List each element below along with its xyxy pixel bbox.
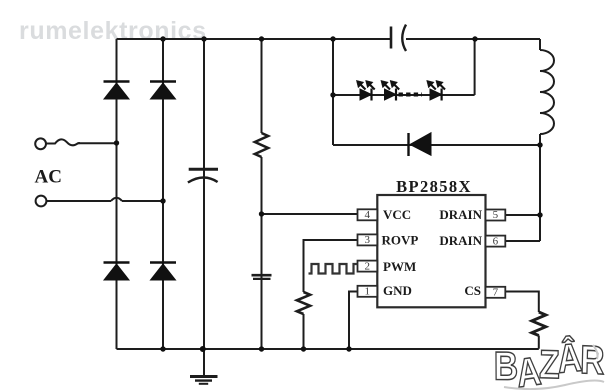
svg-text:ROVP: ROVP (382, 233, 419, 248)
svg-text:VCC: VCC (383, 207, 411, 222)
svg-text:AC: AC (35, 167, 62, 188)
svg-text:PWM: PWM (383, 259, 416, 274)
svg-text:GND: GND (383, 283, 412, 298)
svg-text:2: 2 (365, 260, 371, 272)
svg-text:3: 3 (365, 234, 371, 246)
svg-text:DRAIN: DRAIN (439, 233, 482, 248)
svg-text:BP2858X: BP2858X (396, 177, 472, 196)
svg-text:7: 7 (493, 287, 499, 299)
svg-text:4: 4 (365, 209, 371, 221)
svg-text:5: 5 (493, 209, 499, 221)
svg-text:DRAIN: DRAIN (439, 207, 482, 222)
svg-text:6: 6 (493, 235, 499, 247)
svg-text:1: 1 (365, 286, 371, 298)
svg-text:CS: CS (464, 283, 481, 298)
